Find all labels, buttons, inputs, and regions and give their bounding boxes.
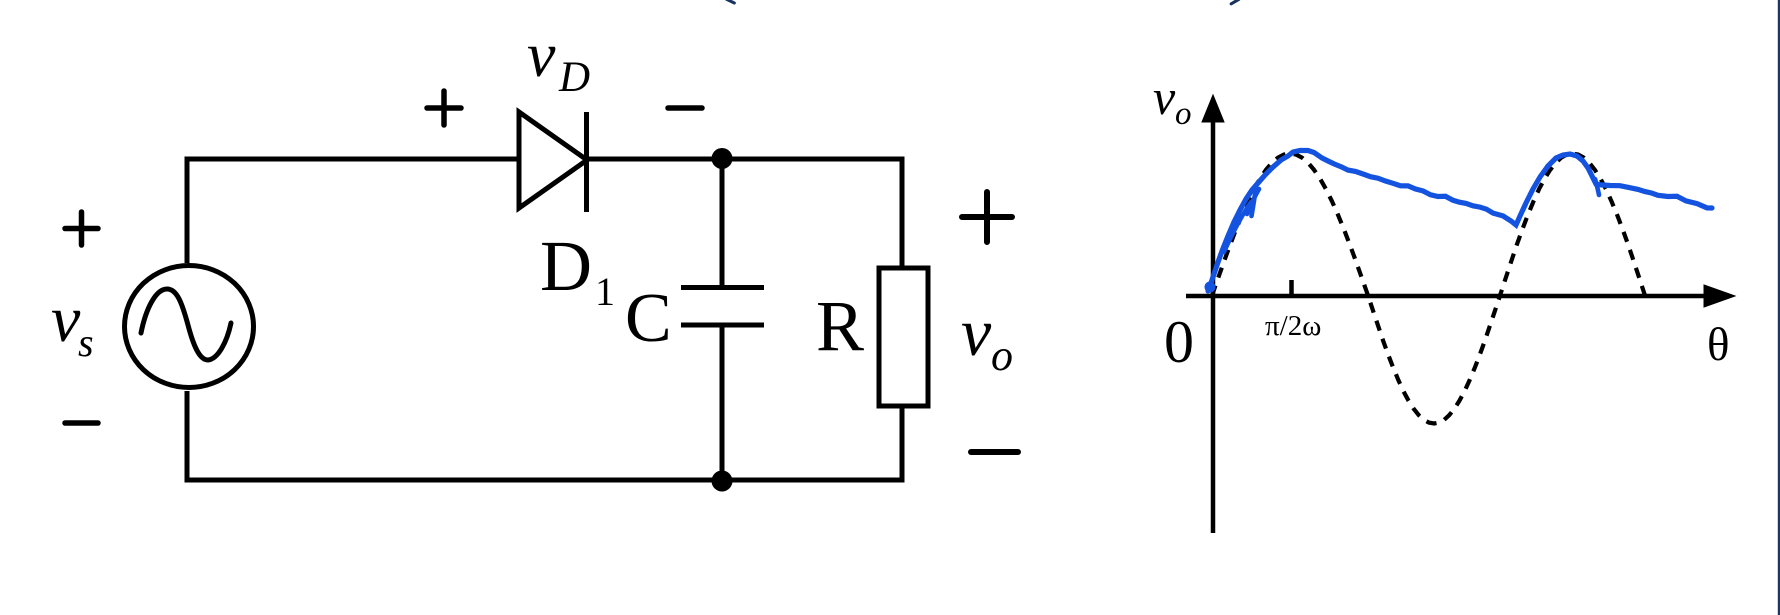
wire: right leg vertical top (top rail to resistor) xyxy=(900,157,905,269)
node: top junction dot xyxy=(712,148,733,169)
svg-text:o: o xyxy=(1175,96,1192,132)
plus sign at source top xyxy=(65,212,98,245)
svg-text:s: s xyxy=(78,320,94,365)
svg-text:C: C xyxy=(625,280,672,357)
cropped title parenthesis fragment left xyxy=(727,0,735,3)
blue curve rise double-stroke xyxy=(1224,202,1251,252)
svg-text:v: v xyxy=(527,19,556,90)
wire: top node down to capacitor top plate xyxy=(720,159,725,287)
svg-text:o: o xyxy=(991,331,1013,380)
ac source VS circle xyxy=(125,266,254,388)
capacitor C bottom plate xyxy=(681,323,764,328)
minus sign at source bottom xyxy=(65,420,98,426)
blue output waveform xyxy=(1208,151,1712,292)
capacitor C top plate xyxy=(681,285,764,290)
wire: capacitor bottom plate down to bottom node xyxy=(720,325,725,480)
graph x-axis xyxy=(1186,294,1707,299)
axis tick at pi/2w xyxy=(1289,280,1294,297)
blue pen-skip stroke on rising edge xyxy=(1247,186,1259,216)
blue pen-skip stroke after second peak xyxy=(1595,179,1599,195)
wire: left vertical from source bottom to bottom rail xyxy=(185,391,190,480)
minus sign after diode xyxy=(668,105,702,111)
wire: left vertical from top rail down to source top xyxy=(185,157,190,264)
svg-text:D: D xyxy=(540,226,592,306)
svg-text:v: v xyxy=(1153,69,1176,125)
diode D1 cathode bar xyxy=(584,112,589,212)
wire: diode cathode to top node and on to right leg xyxy=(587,157,902,162)
svg-text:v: v xyxy=(961,294,992,370)
wire: bottom rail xyxy=(185,478,905,483)
wire: top rail left segment (source top to diode anode) xyxy=(187,157,519,162)
svg-text:θ: θ xyxy=(1707,319,1730,371)
dashed sine curve xyxy=(1212,154,1645,424)
graph y-axis arrowhead xyxy=(1202,95,1224,122)
cropped slide border at right edge xyxy=(1778,0,1780,615)
ac source sine symbol xyxy=(141,289,231,360)
cropped title parenthesis fragment right xyxy=(1231,0,1239,4)
plus sign before diode xyxy=(427,91,461,125)
diode D1 triangle (anode) xyxy=(519,112,587,208)
svg-text:0: 0 xyxy=(1164,309,1194,375)
svg-text:D: D xyxy=(558,54,590,101)
wire: right leg vertical bottom (resistor to bottom rail) xyxy=(900,406,905,480)
svg-text:R: R xyxy=(816,286,864,366)
graph x-axis arrowhead xyxy=(1704,285,1735,307)
minus sign at output xyxy=(971,449,1018,455)
resistor R body xyxy=(879,268,928,406)
graph y-axis xyxy=(1211,118,1216,533)
node: bottom junction dot xyxy=(712,471,733,492)
plus sign at output xyxy=(962,192,1012,242)
svg-text:π/2ω: π/2ω xyxy=(1265,310,1321,342)
blue curve start blob xyxy=(1205,282,1216,293)
svg-text:1: 1 xyxy=(595,269,615,314)
svg-text:v: v xyxy=(51,283,81,356)
